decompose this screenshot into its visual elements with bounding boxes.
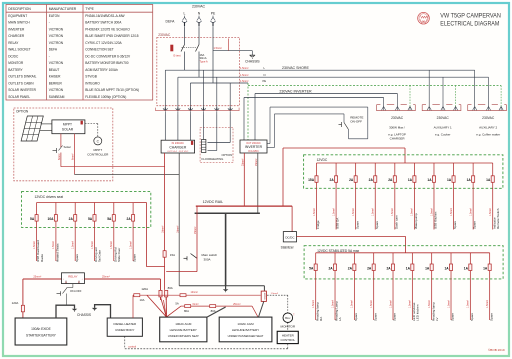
svg-text:1A: 1A	[483, 266, 488, 270]
svg-text:AUXILIARY 1: AUXILIARY 1	[434, 126, 452, 130]
svg-text:TYPE: TYPE	[85, 7, 94, 11]
svg-text:DEFA: DEFA	[166, 19, 176, 23]
wire N breaker to bus	[198, 52, 200, 78]
fuse 1A (fusebox 12VDC #8)	[447, 163, 457, 230]
shore inlet connector N	[196, 12, 201, 28]
svg-text:25mm²: 25mm²	[255, 158, 258, 166]
mppt controller C1	[85, 124, 109, 157]
label DEFA	[166, 19, 176, 23]
RCD breaker 16A 30mA	[171, 45, 208, 64]
svg-text:1A: 1A	[467, 178, 472, 182]
svg-text:OUTLETS CABIN: OUTLETS CABIN	[8, 81, 34, 85]
mppt solar box U3	[52, 120, 85, 134]
wire starter to relay	[23, 276, 62, 279]
svg-text:CHASSIS: CHASSIS	[77, 313, 91, 317]
svg-text:-: -	[49, 21, 50, 25]
fuse 2A (fusebox 12VDC #2)	[330, 163, 340, 230]
relay K1	[62, 273, 85, 284]
label 230VAC SHORE	[240, 66, 309, 70]
solar switch S1	[53, 145, 71, 153]
fuse 1A (fusebox 12VDC stabilized #10)	[483, 253, 493, 321]
fuse 2A (fusebox 12VDC stabilized #4)	[367, 253, 377, 321]
wire connectors to floor heating	[204, 115, 231, 151]
svg-text:INTEGRO: INTEGRO	[85, 81, 100, 85]
svg-text:SOLAR: SOLAR	[62, 128, 74, 132]
svg-text:12VDC STABILIZED 5A max: 12VDC STABILIZED 5A max	[317, 249, 359, 253]
svg-text:1A: 1A	[447, 178, 452, 182]
leisure battery B2	[160, 317, 207, 342]
fuse 2A (fusebox drivers seat #3)	[69, 203, 79, 263]
svg-text:1.5mm²: 1.5mm²	[313, 208, 316, 216]
svg-text:MPPT: MPPT	[63, 122, 72, 126]
fusebox 12VDC	[304, 155, 503, 189]
svg-text:LEISURE BATTERY: LEISURE BATTERY	[170, 328, 197, 332]
inverter negative wire	[255, 153, 258, 213]
solar option box	[14, 108, 113, 181]
parts list table	[6, 5, 153, 101]
svg-text:AGM BATTERY 100Ah: AGM BATTERY 100Ah	[85, 68, 118, 72]
shunt R2	[259, 291, 267, 317]
svg-text:OUT 14.4→13.2 VDC: OUT 14.4→13.2 VDC	[167, 151, 189, 153]
wire L breaker to bus	[184, 52, 186, 71]
svg-text:10A: 10A	[48, 217, 55, 221]
svg-text:Spare: Spare	[393, 313, 397, 321]
svg-text:FLOORHEATING: FLOORHEATING	[202, 157, 224, 161]
inverter positive wire	[241, 153, 244, 206]
svg-text:Tail Gate: Tail Gate	[98, 250, 102, 262]
svg-text:1.5mm²: 1.5mm²	[332, 208, 335, 216]
heating element R1	[202, 140, 206, 153]
svg-text:1.5mm²: 1.5mm²	[389, 300, 392, 308]
svg-text:100Ah AGM: 100Ah AGM	[237, 322, 254, 326]
svg-text:VICTRON: VICTRON	[49, 27, 64, 31]
svg-text:Waterpump: Waterpump	[414, 213, 418, 229]
svg-text:1.5mm²: 1.5mm²	[467, 300, 470, 308]
svg-text:1.5mm²: 1.5mm²	[129, 241, 132, 249]
fuse 2A (fusebox 12VDC #3)	[349, 163, 359, 230]
svg-text:DEFA: DEFA	[49, 48, 58, 52]
svg-text:STV/GB: STV/GB	[85, 75, 97, 79]
battery interlink ground	[207, 307, 226, 317]
svg-text:1A: 1A	[406, 266, 411, 270]
charger negative wire	[176, 153, 179, 286]
svg-text:1.5mm²: 1.5mm²	[391, 208, 394, 216]
svg-text:PN346-16/1N/B/DS1-A-MW: PN346-16/1N/B/DS1-A-MW	[85, 14, 124, 18]
svg-text:CYRIX-CT 12V/24V-120A: CYRIX-CT 12V/24V-120A	[85, 41, 122, 45]
svg-text:CONTROLLER: CONTROLLER	[87, 152, 109, 156]
svg-text:1.5mm²: 1.5mm²	[240, 80, 249, 83]
svg-text:12VDC drivers seat: 12VDC drivers seat	[35, 195, 64, 199]
svg-text:L: L	[184, 12, 186, 16]
svg-text:OUTLETS DINRAIL: OUTLETS DINRAIL	[8, 75, 36, 79]
wire N to breaker	[198, 28, 200, 45]
fuse 10A (fusebox drivers seat #2)	[48, 203, 60, 263]
svg-text:VICTRON: VICTRON	[49, 61, 64, 65]
svg-text:5A: 5A	[309, 266, 314, 270]
svg-text:VICTRON: VICTRON	[49, 34, 64, 38]
svg-text:1.5mm²: 1.5mm²	[489, 208, 492, 216]
svg-text:12VDC: 12VDC	[317, 158, 328, 162]
svg-text:Solar: Solar	[64, 145, 71, 149]
svg-text:Spare: Spare	[451, 313, 455, 321]
svg-text:25mm²: 25mm²	[33, 276, 41, 279]
wire PE green	[248, 83, 501, 140]
charger positive wire	[162, 153, 165, 251]
fuse 80A leisure	[165, 286, 173, 300]
svg-text:230VAC: 230VAC	[482, 116, 495, 120]
svg-text:1.5mm²: 1.5mm²	[240, 74, 249, 77]
left fusebox feed	[133, 203, 164, 267]
svg-text:120A: 120A	[12, 301, 19, 305]
12VDC negative rail	[195, 212, 260, 214]
svg-text:Bmv: Bmv	[285, 316, 291, 320]
charger U1	[161, 140, 195, 153]
AC outlet pair at 422	[422, 105, 461, 137]
svg-text:ELECTRICAL DIAGRAM: ELECTRICAL DIAGRAM	[440, 21, 499, 28]
chassis ground starter	[56, 305, 77, 318]
svg-text:1.5mm²: 1.5mm²	[370, 300, 373, 308]
svg-text:2A: 2A	[69, 217, 74, 221]
fuse 120A starter	[12, 279, 25, 318]
wall connector 4	[201, 108, 206, 115]
svg-text:1.5mm²: 1.5mm²	[240, 67, 249, 70]
fuse 1A (fusebox 12VDC #6)	[408, 163, 418, 230]
wire inverter L bus	[255, 89, 397, 140]
svg-text:87: 87	[78, 282, 80, 284]
wall connector 2	[176, 108, 181, 115]
svg-text:DC-DC CONVERTER 6-36/12V: DC-DC CONVERTER 6-36/12V	[85, 54, 131, 58]
svg-text:BLUE SOLAR MPPT 75/10 (OPTION): BLUE SOLAR MPPT 75/10 (OPTION)	[85, 88, 139, 92]
wire drops to wall connectors	[165, 70, 230, 107]
fuse 1A (fusebox 12VDC stabilized #7)	[425, 253, 439, 321]
svg-text:6mm²: 6mm²	[71, 153, 75, 160]
wall connector 1	[163, 108, 168, 115]
RCD enclosure box 230VAC	[157, 33, 240, 106]
svg-text:HEATER: HEATER	[282, 333, 295, 337]
ground bus	[179, 213, 264, 292]
dc-dc converter U4	[281, 232, 297, 250]
svg-text:ON-OFF: ON-OFF	[70, 289, 82, 293]
wire L to breaker	[184, 28, 186, 45]
svg-text:Spare: Spare	[133, 254, 137, 262]
wire inverter N bus	[244, 98, 384, 141]
svg-text:2A: 2A	[349, 178, 354, 182]
fuse 10A heater	[133, 294, 145, 318]
svg-text:300A: 300A	[204, 257, 211, 261]
svg-text:230VAC: 230VAC	[158, 33, 171, 37]
svg-text:DC/DC: DC/DC	[8, 54, 19, 58]
svg-text:230VAC: 230VAC	[391, 116, 404, 120]
svg-text:1.5mm²: 1.5mm²	[72, 241, 75, 249]
svg-text:1A: 1A	[427, 178, 432, 182]
svg-text:Spare: Spare	[470, 313, 474, 321]
title text	[440, 12, 501, 27]
wire relay to leisure	[84, 276, 160, 279]
wall socket bracket DEFA	[156, 108, 240, 111]
svg-text:SOLAR PANEL: SOLAR PANEL	[8, 95, 30, 99]
svg-text:UNDER BODY: UNDER BODY	[115, 328, 134, 332]
fuse 2A (fusebox 12VDC stabilized #3)	[348, 253, 358, 321]
svg-text:10A: 10A	[140, 298, 145, 302]
svg-text:CHASSIS: CHASSIS	[245, 60, 260, 64]
wire PE down	[212, 28, 214, 84]
solar panel PV1	[21, 116, 43, 141]
fuse 120A leisure	[141, 279, 162, 300]
svg-text:Spare: Spare	[453, 221, 457, 229]
svg-text:INVERTER: INVERTER	[245, 145, 263, 149]
fuse 2A (fusebox drivers seat #6)	[127, 203, 137, 263]
svg-text:BEAUT: BEAUT	[49, 68, 60, 72]
svg-text:1A: 1A	[464, 266, 469, 270]
chassis ground at RCD	[245, 55, 260, 63]
svg-text:MANUFACTURER: MANUFACTURER	[49, 7, 77, 11]
svg-text:WALL SOCKET: WALL SOCKET	[8, 48, 30, 52]
svg-text:15A: 15A	[170, 253, 175, 257]
shore inlet connector PE	[210, 12, 216, 28]
svg-text:15A: 15A	[308, 178, 315, 182]
wire connectors to charger	[165, 115, 190, 141]
12VDC positive rail	[196, 200, 292, 206]
svg-text:2A: 2A	[367, 266, 372, 270]
svg-text:LED kitchen: LED kitchen	[416, 304, 420, 321]
svg-text:AUXILIARY 2: AUXILIARY 2	[479, 126, 497, 130]
svg-text:DIESEL HEATER: DIESEL HEATER	[114, 322, 137, 326]
svg-text:SOLAR INVERTER: SOLAR INVERTER	[8, 88, 36, 92]
wire heater bus to shunt	[140, 291, 261, 297]
svg-text:UNDER PASSENGER SEAT: UNDER PASSENGER SEAT	[228, 334, 264, 338]
svg-text:Remote Switch: Remote Switch	[496, 208, 500, 229]
svg-text:2A: 2A	[386, 266, 391, 270]
wire leisure battery 2 feed	[175, 301, 258, 317]
wall connector 3	[188, 108, 193, 115]
svg-text:BLUE SMART IP65 CHARGER 12/15: BLUE SMART IP65 CHARGER 12/15	[85, 34, 139, 38]
svg-text:Spare: Spare	[489, 313, 493, 321]
svg-text:1.5mm²: 1.5mm²	[450, 208, 453, 216]
fuse 1A (fusebox 12VDC stabilized #6)	[406, 253, 420, 321]
svg-text:!: !	[294, 313, 295, 317]
svg-text:1.5mm²: 1.5mm²	[352, 208, 355, 216]
svg-text:Slide Door: Slide Door	[117, 248, 121, 262]
svg-text:control: control	[128, 345, 136, 349]
svg-text:BERKER: BERKER	[49, 81, 63, 85]
fuse 5A (fusebox drivers seat #5)	[107, 203, 121, 263]
svg-text:25mm²: 25mm²	[241, 158, 244, 166]
svg-text:100Ah AGM: 100Ah AGM	[175, 322, 192, 326]
VW logo	[418, 12, 430, 24]
svg-text:Spare: Spare	[355, 221, 359, 229]
svg-text:1A: 1A	[425, 266, 430, 270]
fuse 2A (fusebox 12VDC #5)	[388, 163, 398, 230]
svg-text:©BOB 2019: ©BOB 2019	[488, 348, 505, 352]
fusebox 12VDC stabilized	[304, 246, 503, 279]
svg-text:Dash cam: Dash cam	[394, 215, 398, 229]
svg-text:25mm²: 25mm²	[194, 226, 197, 234]
svg-text:1.5mm²: 1.5mm²	[214, 47, 223, 50]
svg-text:2A: 2A	[328, 266, 333, 270]
fuse 2A (fusebox 12VDC #4)	[369, 163, 379, 230]
copyright note	[488, 348, 505, 352]
svg-text:ON-OFF: ON-OFF	[350, 120, 362, 124]
wire breaker to chassis	[213, 39, 252, 56]
svg-text:2A: 2A	[330, 178, 335, 182]
svg-text:Spare: Spare	[375, 221, 379, 229]
wire dcdc to stabilized bus	[297, 237, 406, 253]
svg-text:1A: 1A	[408, 178, 413, 182]
fuse 1A (fusebox 12VDC #10)	[486, 163, 500, 230]
svg-text:MAIN SWITCH: MAIN SWITCH	[8, 21, 30, 25]
svg-text:RELAY: RELAY	[8, 41, 19, 45]
svg-text:30: 30	[65, 282, 67, 284]
svg-text:100Ah EXIDE: 100Ah EXIDE	[31, 327, 51, 331]
chassis ground heater	[77, 305, 111, 318]
fuse 5A (fusebox drivers seat #4)	[88, 203, 102, 263]
svg-text:120A: 120A	[141, 287, 148, 291]
fuse 2A (fusebox 12VDC stabilized #5)	[386, 253, 396, 321]
svg-text:FLEXIBLE 100Wp (OPTION): FLEXIBLE 100Wp (OPTION)	[85, 95, 126, 99]
svg-text:VW T5GP CAMPERVAN: VW T5GP CAMPERVAN	[440, 12, 501, 19]
svg-text:Radio: Radio	[40, 254, 44, 262]
svg-text:OPTION: OPTION	[16, 110, 29, 114]
svg-text:16mm²: 16mm²	[162, 225, 165, 233]
relay override switch	[57, 284, 82, 306]
svg-text:Fridge: Fridge	[316, 220, 320, 229]
remote on-off loop	[267, 107, 368, 147]
svg-text:PE: PE	[263, 79, 267, 83]
svg-text:1.5mm²: 1.5mm²	[351, 300, 354, 308]
svg-text:Heated Seats: Heated Seats	[56, 243, 60, 262]
svg-text:Stabilizer: Stabilizer	[281, 246, 295, 250]
fuse 15A (fusebox 12VDC #1)	[308, 163, 320, 230]
solar wires to bus	[57, 134, 179, 175]
fuse 1A (fusebox 12VDC stabilized #8)	[444, 253, 454, 321]
floor heating option box	[200, 127, 233, 162]
svg-text:CHARGER: CHARGER	[390, 137, 406, 141]
svg-text:10mm²: 10mm²	[191, 291, 199, 294]
svg-text:2A: 2A	[348, 266, 353, 270]
svg-text:e.g. Cooker: e.g. Cooker	[435, 132, 451, 136]
svg-text:SHUNT: SHUNT	[264, 292, 266, 300]
fuse 15A house feed	[163, 251, 175, 290]
main switch 300A	[166, 206, 217, 272]
wire N shore bus	[178, 73, 489, 77]
svg-text:Spare: Spare	[75, 254, 79, 262]
diesel heater box	[107, 318, 142, 336]
svg-text:BATTERY: BATTERY	[8, 68, 23, 72]
svg-text:RELAY: RELAY	[68, 275, 77, 279]
svg-text:2A: 2A	[369, 178, 374, 182]
shore inlet connector L	[182, 12, 187, 28]
svg-text:VICTRON: VICTRON	[49, 88, 64, 92]
svg-text:VICTRON: VICTRON	[49, 41, 64, 45]
heater control wire	[125, 336, 288, 349]
svg-text:5A: 5A	[175, 301, 179, 305]
svg-text:Spare: Spare	[373, 313, 377, 321]
svg-text:PE: PE	[211, 12, 216, 16]
wall connector 6	[228, 108, 233, 115]
svg-text:LEISURE BATTERY: LEISURE BATTERY	[232, 328, 259, 332]
svg-text:e.g. Coffee maker: e.g. Coffee maker	[476, 132, 500, 136]
starter battery B1	[15, 318, 67, 345]
svg-text:STARTER BATTERY: STARTER BATTERY	[26, 334, 57, 338]
svg-text:-: -	[49, 54, 50, 58]
svg-text:1.5mm²: 1.5mm²	[447, 300, 450, 308]
svg-text:USB DA: USB DA	[336, 217, 340, 229]
label 230VAC mains	[192, 5, 206, 9]
fuse 1A (fusebox 12VDC #9)	[467, 163, 477, 230]
svg-text:KAISER: KAISER	[49, 75, 61, 79]
svg-text:SUNBEAM: SUNBEAM	[49, 95, 65, 99]
wire drops to outlets	[384, 70, 502, 106]
svg-text:2A: 2A	[388, 178, 393, 182]
heater control box	[277, 323, 298, 344]
wall connector 5	[215, 108, 220, 115]
svg-text:BATTERY SWITCH 300A: BATTERY SWITCH 300A	[85, 21, 122, 25]
svg-text:1.5mm²: 1.5mm²	[486, 300, 489, 308]
svg-text:Type A: Type A	[200, 59, 208, 63]
svg-text:PHOENIX 12/375 VE SCHUKO: PHOENIX 12/375 VE SCHUKO	[85, 27, 130, 31]
wire panel to mppt	[40, 124, 52, 130]
wire L shore bus	[165, 69, 474, 71]
svg-text:DC/DC: DC/DC	[285, 235, 294, 239]
svg-text:Spare: Spare	[473, 221, 477, 229]
svg-text:230VAC INVERTER: 230VAC INVERTER	[279, 89, 312, 93]
svg-text:1A: 1A	[486, 178, 491, 182]
svg-text:25mm²: 25mm²	[102, 276, 110, 279]
svg-text:230VAC: 230VAC	[437, 116, 450, 120]
fuse 5A (fusebox 12VDC stabilized #1)	[309, 253, 323, 321]
svg-text:12VDC RAIL: 12VDC RAIL	[203, 200, 224, 204]
wire rail to dcdc	[291, 206, 293, 232]
fusebox 12VDC bus	[317, 162, 493, 164]
AC outlet pair at 376	[377, 105, 416, 141]
AC outlet pair at 467	[468, 105, 507, 137]
leisure battery B3	[219, 317, 272, 342]
svg-text:16mm²: 16mm²	[176, 225, 179, 233]
svg-text:Spare: Spare	[354, 313, 358, 321]
wire PE shore bus	[190, 79, 266, 83]
svg-text:DESCRIPTION: DESCRIPTION	[8, 7, 31, 11]
svg-text:USB Kitchen: USB Kitchen	[434, 211, 438, 229]
svg-text:5A: 5A	[30, 217, 35, 221]
fuse 1A (fusebox 12VDC stabilized #9)	[464, 253, 474, 321]
svg-text:CHARGER: CHARGER	[8, 34, 25, 38]
svg-text:230VAC: 230VAC	[192, 5, 206, 9]
fusebox 12VDC stabilized bus	[316, 252, 490, 254]
svg-text:MONITOR: MONITOR	[8, 61, 24, 65]
svg-text:80A: 80A	[184, 309, 189, 313]
inverter U2	[240, 140, 267, 153]
svg-text:230VAC SHORE: 230VAC SHORE	[282, 66, 309, 70]
svg-text:CONNECTION SET: CONNECTION SET	[85, 48, 114, 52]
svg-text:1.5mm²: 1.5mm²	[271, 292, 279, 295]
svg-text:2A: 2A	[127, 217, 132, 221]
svg-text:CONTROL: CONTROL	[280, 338, 295, 342]
svg-text:1.5mm²: 1.5mm²	[469, 208, 472, 216]
svg-text:1A: 1A	[444, 266, 449, 270]
svg-text:INVERTER: INVERTER	[8, 27, 25, 31]
wires to leisure battery 1	[147, 295, 181, 316]
svg-text:UNDER DRIVERS SEAT: UNDER DRIVERS SEAT	[168, 334, 199, 338]
svg-text:300W Max !: 300W Max !	[389, 126, 405, 130]
svg-text:25mm²: 25mm²	[233, 303, 241, 306]
svg-text:MONITOR: MONITOR	[281, 324, 296, 328]
fuse 2A (fusebox 12VDC stabilized #2)	[328, 253, 342, 321]
svg-text:CHARGER: CHARGER	[169, 145, 187, 149]
fuse 1A (fusebox 12VDC #7)	[427, 163, 437, 230]
wire rail to 12VDC fusebox	[283, 148, 405, 206]
svg-text:EQUIPMENT: EQUIPMENT	[8, 14, 27, 18]
svg-text:5A: 5A	[107, 217, 112, 221]
